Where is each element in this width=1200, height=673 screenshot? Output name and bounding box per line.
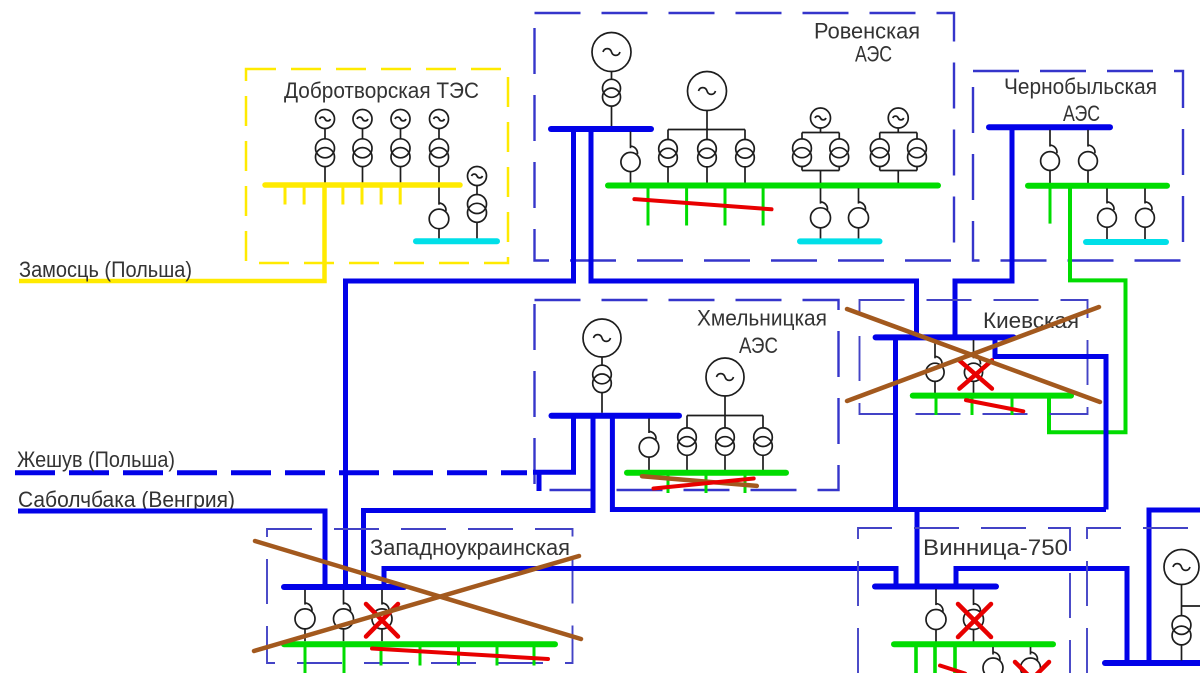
wire autotransformer to 330kV bus [973,630,975,642]
wire 750kV bus to autotransformer [934,340,936,358]
bus 220kV Dobrotvorska (yellow) [265,182,460,188]
wire to right transformer [916,133,918,140]
330kV outgoing lines Vinnytsia (long ticks) [916,647,955,673]
750kV line Kievska east loop [995,340,1106,510]
autotransformer AT1 Khmelnytska [639,432,659,458]
wire switch to 110kV bus [1144,227,1146,239]
generator G4 Dobrotvorska [430,110,449,129]
lower switch at x=993 Vinnytsia [983,652,1003,673]
bus 110kV Dobrotvorska (cyan) [416,238,497,244]
bus 110kV Rovenska (cyan) [800,238,880,244]
svg-text:Добротворская ТЭС: Добротворская ТЭС [284,78,479,103]
bridge top wire [802,132,839,134]
330kV line Chernobylska to Kievska (green) [1049,189,1126,433]
wire switch to 110kV bus [1106,227,1108,239]
wire split to transformer [667,130,669,140]
transformer right unit 3 [830,139,849,167]
transformer T5 Dobrotvorska [468,195,487,223]
brown X over Kievska box - line 2 [847,307,1099,401]
svg-text:Чернобыльская: Чернобыльская [1004,74,1157,99]
generator G2 Rovenska (large) [688,72,727,111]
svg-text:Замосць (Польша): Замосць (Польша) [19,257,192,282]
wire generator to bridge [897,128,899,133]
wire Vinnytsia bus to autotransformer [935,589,937,605]
750kV line Kievska to Vinnytsia west - drop [893,340,898,510]
transformer T1 Khmelnytska [593,365,612,392]
wire 750kV bus to autotransformer AT1 [648,419,650,434]
wire autotransformer to 330kV bus [343,629,345,641]
svg-text:АЭС: АЭС [739,333,778,358]
bus 750kV Kievska (blue) [876,334,1014,340]
transformer left unit 4 [870,139,889,167]
wire T1 to 750kV bus [601,393,603,413]
brown X over Zapadnoukrainska box - line 2 [254,556,579,651]
wire generator to transformer [1181,585,1183,617]
wire 750kV bus to autotransformer [304,590,306,605]
wire 750kV bus to autotransformer AT1 [630,132,632,149]
svg-text:Хмельницкая: Хмельницкая [697,306,827,331]
wire autotransformer to 330kV bus [381,629,383,641]
autotransformer at x=1050 Chernobylska [1041,145,1060,170]
wire bridge to 330kV bus [897,171,899,183]
transformer T4 Dobrotvorska [430,139,449,167]
wire right transformer to bridge bottom [838,167,840,171]
wire 750kV bus to autotransformer [381,590,383,605]
wire G4 to transformer [438,129,440,139]
wire transformer to 330kV bus [724,455,726,470]
wire transformer to 330kV bus [762,455,764,470]
wire to left transformer [801,133,803,140]
wire to right transformer [838,133,840,140]
wire bridge to 330kV bus [820,171,822,183]
wire autotransformer to 330kV bus [935,630,937,642]
autotransformer AT3 Zapadnoukrainska [372,603,392,629]
wire 330kV bus to switch [1144,189,1146,204]
wire G1 to transformer T1 [611,72,613,80]
bus 750kV Chernobylska (blue) [989,124,1110,130]
brown X over Zapadnoukrainska box - line 1 [255,541,581,639]
wire green bus to lower switch [992,647,994,655]
bridge bottom wire [802,170,839,172]
generator unit 4 Rovenska [888,108,908,128]
bus 330kV Rovenska (green) [608,183,938,189]
wire T2 to 220kV bus [362,166,364,182]
split wire to three transformers [687,415,763,417]
switch at x=820.5 Rovenska [811,202,831,228]
wire T5 to 110kV bus [476,222,478,239]
red strike line under Khmelnytska green bus [654,479,754,489]
transformer T1 south station [1172,616,1191,645]
generator G5 Dobrotvorska [468,167,487,186]
unit transformer at x=745 Rovenska [736,140,755,167]
feeder stub on 330kV bus [1049,189,1052,224]
wire AT1 to 330kV bus [630,172,632,183]
wire switch to 110kV bus [858,228,860,239]
wire split to transformer [706,130,708,140]
wire left transformer to bridge bottom [879,167,881,171]
wire split to transformer [686,416,688,428]
bus 330kV Zapadnoukrainska (green) [284,641,555,647]
750kV line Chernobylska to Kievska [955,130,1012,336]
branch wire to east [1182,605,1200,607]
autotransformer AT1 Zapadnoukrainska [295,603,315,629]
unit transformer at x=687 Khmelnytska [678,428,697,455]
wire AT1 to 330kV bus [648,457,650,470]
750kV line from east edge to south station [1149,510,1200,661]
330kV outgoing lines (long ticks) [305,647,344,673]
wire transformer to 330kV bus [744,167,746,183]
wire G2 to unit transformers [706,111,708,130]
switch at x=1107 Chernobylska [1098,202,1117,227]
wire G1 to transformer [324,129,326,139]
wire transformer to 750kV bus [1181,645,1183,661]
generator G3 Dobrotvorska [391,110,410,129]
generator G1 south station (large) [1164,550,1199,585]
generator G1 Khmelnytska (large) [583,319,621,357]
autotransformer at x=936 Vinnytsia [926,604,946,630]
transformer T1 Dobrotvorska [316,139,335,167]
wire 750kV bus to autotransformer [1049,130,1051,147]
autotransformer at x=1088 Chernobylska [1079,145,1098,170]
station box Rovenska AES (dashed blue) [535,13,955,261]
bridge top wire [880,132,917,134]
generator unit 3 Rovenska [811,108,831,128]
autotransformer at x=973.5 Kievska [964,357,982,382]
red X over Kievska autotransformer (out of service) [959,360,992,388]
svg-text:Ровенская: Ровенская [814,19,920,44]
transformer left unit 3 [793,139,812,167]
station box Khmelnytska AES (dashed blue) [535,300,839,490]
brown strike line under Khmelnytska green bus [642,476,757,486]
svg-text:Саболчбака (Венгрия): Саболчбака (Венгрия) [18,487,235,512]
switch S1 Dobrotvorska [429,203,449,229]
wire 750kV bus to autotransformer [343,590,345,605]
svg-text:Винница-750: Винница-750 [923,535,1068,560]
wire split to transformer [762,416,764,428]
wire split to transformer [724,416,726,428]
station box Zapadnoukrainska (dashed blue) [267,529,573,663]
svg-text:Западноукраинская: Западноукраинская [370,535,570,560]
transformer T1 Rovenska [603,79,621,106]
wire autotransformer to 330kV bus [304,629,306,641]
generator G2 Khmelnytska (large) [706,358,744,396]
bus 330kV Kievska (green) [913,393,1071,399]
wire generator to bridge [820,128,822,133]
wire Vinnytsia bus to autotransformer [973,589,975,605]
feeder ticks on 330kV bus Zapadnoukrainska [381,647,534,666]
wire right transformer to bridge bottom [916,167,918,171]
unit transformer at x=763 Khmelnytska [754,428,773,455]
wire transformer to 330kV bus [686,455,688,470]
line to Zamosc (Poland) [19,187,325,281]
wire transformer to 330kV bus [706,167,708,183]
transformer T2 Dobrotvorska [353,139,372,167]
substation box Vinnytsia-750 (dashed blue, open bottom) [858,528,1070,673]
feeder ticks on 330kV bus Rovenska [648,188,763,226]
red strike line under Kievska green bus [966,400,1023,411]
bus 750kV Rovenska (blue) [551,126,651,132]
red strike line over Rovenska feeders [634,199,771,209]
wire G2 to transformer [362,129,364,139]
red X over autotransformer AT3 (out of service) [366,604,398,637]
bus 330kV Vinnytsia (green) [894,641,1053,647]
750kV line to Szabolcsbaka (Hungary) [18,511,325,585]
station box south (dashed blue, partial) [1087,528,1200,673]
wire 330kV bus to switch [1106,189,1108,204]
bus 750kV south station (blue) [1105,660,1200,666]
wire T1 to 750kV bus [611,107,613,127]
svg-text:АЭС: АЭС [855,42,892,67]
split wire to three transformers [668,129,745,131]
switch at x=858.5 Rovenska [849,202,869,228]
transformer T3 Dobrotvorska [391,139,410,167]
bridge bottom wire [880,170,917,172]
wire autotransformer to 330kV bus [973,381,975,393]
autotransformer AT2 Zapadnoukrainska [334,603,354,629]
unit transformer at x=668 Rovenska [659,140,678,167]
bus 750kV Vinnytsia (blue) [875,584,996,590]
750kV line Zapadnoukrainska to Vinnytsia [384,569,896,585]
wire T3 to 220kV bus [400,166,402,182]
switch at x=1145 Chernobylska [1136,202,1155,227]
750kV line Rovenska to Zapadnoukrainska [346,131,574,585]
red X over lower Vinnytsia switch [1015,662,1049,673]
wire green bus to lower switch [1030,647,1032,655]
bus 750kV Khmelnytska (blue) [552,413,680,419]
feeder ticks on yellow bus [285,187,400,205]
wire S1 to 110kV bus [438,229,440,239]
planned branch dash below elbow [537,474,542,491]
wire to left transformer [879,133,881,140]
bus 750kV Zapadnoukrainska (blue) [284,584,404,590]
wire G1 to transformer T1 [601,357,603,366]
wire G2 down to split [724,396,726,416]
unit transformer at x=725 Khmelnytska [716,428,735,455]
transformer right unit 4 [908,139,927,167]
750kV line Vinnytsia to south station [956,569,1127,662]
feeder ticks on 330kV bus Khmelnytska [668,475,745,493]
red strike line over Zapadnoukrainska feeders [372,649,548,660]
bus 110kV Chernobylska (cyan) [1086,239,1166,245]
wire transformer to 330kV bus [667,167,669,183]
svg-text:АЭС: АЭС [1063,101,1100,126]
wire autotransformer to 330kV bus [1087,170,1089,183]
substation box Kievska (dashed blue) [860,300,1088,414]
wire G5 to transformer T5 [476,186,478,195]
autotransformer at x=935 Kievska [926,357,944,382]
wire split to transformer [744,130,746,140]
generator G2 Dobrotvorska [353,110,372,129]
brown X over Kievska box - line 1 [847,309,1100,402]
autotransformer at x=973.5 Vinnytsia [964,604,984,630]
generator G1 Dobrotvorska [316,110,335,129]
station box Dobrotvorska TES (dashed yellow) [246,69,508,263]
wire 330kV bus to switch [820,188,822,203]
red X over Vinnytsia autotransformer (out of service) [958,604,991,637]
wire 750kV bus to autotransformer [973,340,975,358]
wire autotransformer to 330kV bus [1049,170,1051,183]
feeder ticks on 330kV bus Kievska [936,398,1012,415]
wire G3 to transformer [400,129,402,139]
bus 330kV Chernobylska (green) [1028,183,1167,189]
wire 750kV bus to autotransformer [1087,130,1089,147]
wire switch to 110kV bus [820,228,822,239]
750kV planned line to Rzeszow - solid elbow from bus [533,418,574,472]
wire T1 to 220kV bus [324,166,326,182]
bus 330kV Khmelnytska (green) [627,470,786,476]
wire 330kV bus to switch [858,188,860,203]
750kV planned line to Rzeszow (dashed) [15,470,527,475]
750kV line drop into Vinnytsia bus [915,512,920,585]
svg-text:Жешув (Польша): Жешув (Польша) [17,447,175,472]
station box Chernobylska AES (dashed blue) [973,71,1183,261]
750kV line Rovenska to Kievska [591,131,917,335]
wire yellow bus to switch S1 [438,188,440,205]
red strike fragment over Vinnytsia outgoing line [940,666,965,673]
wire T4 to 220kV bus [438,166,440,182]
750kV line Khmelnytska to Kievska/Vinnytsia (long) [612,418,1106,510]
750kV line Khmelnytska to Zapadnoukrainska [364,418,594,585]
wire autotransformer to 330kV bus [934,381,936,393]
wire left transformer to bridge bottom [801,167,803,171]
generator G1 Rovenska (large) [592,33,631,72]
unit transformer at x=707 Rovenska [698,140,717,167]
lower switch at x=1030.5 Vinnytsia [1021,652,1041,673]
autotransformer AT1 Rovenska [621,146,640,171]
